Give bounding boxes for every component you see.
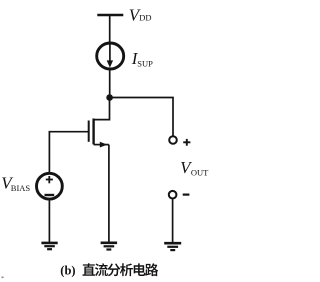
voltage source VBIAS [37, 173, 63, 199]
svg-text:(b): (b) [60, 264, 75, 278]
transistor M1 (NMOS) [89, 119, 109, 148]
ground (output) [164, 243, 181, 250]
wire node to output + terminal [110, 98, 173, 137]
wire node to transistor drain [94, 98, 110, 120]
scan speck [2, 277, 4, 279]
wire gate to VBIAS [49, 132, 88, 174]
label - (output) [183, 194, 190, 196]
label VBIAS [1, 174, 30, 193]
svg-text:BIAS: BIAS [11, 183, 31, 193]
wire output - terminal to ground [172, 199, 174, 243]
label ISUP [131, 49, 153, 68]
output terminal - [169, 191, 177, 199]
node (drain junction) [106, 94, 113, 101]
svg-text:DD: DD [139, 13, 151, 23]
wire source to ground (middle) [108, 145, 110, 243]
label VOUT [180, 158, 209, 177]
label + (output) [183, 139, 190, 146]
output terminal + [169, 136, 177, 144]
ground (source) [101, 243, 118, 250]
current source ISUP [97, 43, 124, 69]
wire VDD rail to current source [109, 15, 111, 44]
svg-text:OUT: OUT [191, 167, 209, 177]
ground (VBIAS) [41, 243, 57, 249]
svg-text:SUP: SUP [137, 58, 153, 68]
wire VBIAS to ground (left) [48, 199, 50, 242]
caption text 直流分析电路 [82, 263, 158, 276]
label VDD [129, 5, 152, 24]
wire current source to drain node [109, 69, 111, 98]
power rail VDD [97, 14, 123, 17]
